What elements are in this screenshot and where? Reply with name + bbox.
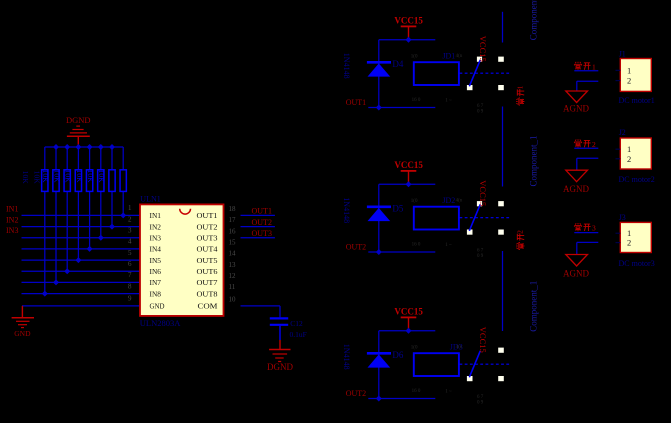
switch pad D (relay 3) (498, 376, 504, 381)
svg-text:COM: COM (198, 302, 218, 311)
power VCC15 (relay 1) (394, 16, 423, 40)
svg-text:10K: 10K (33, 171, 42, 185)
svg-text:4(n: 4(n (456, 345, 463, 350)
ground AGND (J2) (563, 170, 589, 194)
svg-text:4(n: 4(n (456, 54, 463, 59)
svg-text:1N4148: 1N4148 (342, 53, 351, 79)
svg-text:6: 6 (128, 260, 132, 268)
svg-text:0 9: 0 9 (477, 254, 484, 259)
svg-text:VCC15: VCC15 (478, 36, 488, 62)
svg-text:IN3: IN3 (6, 226, 18, 235)
svg-text:18: 18 (229, 205, 237, 213)
svg-text:AGND: AGND (563, 184, 589, 194)
svg-text:IN1: IN1 (150, 211, 162, 220)
wire: bus drop to resistor R6 (100, 147, 102, 169)
svg-text:16 0: 16 0 (412, 98, 421, 103)
wire: VCC15 rail (relay 1) (379, 39, 436, 41)
wire: net 常开1 stub (574, 70, 598, 72)
junction at IN8 row (42, 291, 48, 297)
svg-text:DGND: DGND (267, 362, 293, 372)
diode D6 1N4148 flyback (367, 353, 391, 367)
resistor R4 10K (75, 170, 81, 192)
wire: resistor R3 bottom to row IN6 (66, 192, 68, 271)
pin 1 (J1) (616, 69, 621, 71)
junction on bus at resistor R7 (109, 144, 115, 150)
wire: resistor R2 bottom to row IN7 (55, 192, 57, 282)
wire: bus drop to resistor R2 (55, 147, 57, 169)
wire: resistor R6 bottom to row IN3 (100, 192, 102, 238)
switch pad B (relay 2) (498, 201, 504, 206)
wire: pin2 to AGND (J2) (577, 157, 599, 159)
svg-text:OUT2: OUT2 (197, 222, 218, 231)
svg-text:OUT5: OUT5 (197, 256, 218, 265)
svg-text:1: 1 (592, 62, 596, 71)
svg-text:VCC15: VCC15 (478, 327, 488, 353)
svg-text:ULN2803A: ULN2803A (140, 318, 181, 328)
resistor R7 10K (109, 170, 115, 192)
junction at IN6 row (64, 268, 70, 274)
svg-text:J1: J1 (619, 50, 626, 59)
wire: VCC15 feed to switch 1 (502, 12, 504, 43)
svg-text:4: 4 (128, 238, 132, 246)
junction OUT2 (relay 3) (376, 396, 382, 402)
switch pad B (relay 3) (498, 348, 504, 353)
wire: bus drop to resistor R4 (77, 147, 79, 169)
svg-text:10: 10 (229, 296, 237, 304)
power VCC15 (relay 3) (394, 307, 423, 331)
switch pad C (relay 2) (467, 230, 473, 235)
junction at IN1 row (120, 212, 126, 218)
svg-text:16: 16 (229, 227, 237, 235)
svg-text:16 0: 16 0 (412, 243, 421, 248)
connector J3 (620, 222, 651, 252)
wire: VCC15 rail (relay 2) (379, 183, 436, 185)
wire: diode branch vertical (relay 1) (378, 40, 380, 108)
switch pad C (relay 3) (467, 376, 473, 381)
junction VCC15 (relay 3) (406, 328, 412, 334)
svg-text:IN2: IN2 (6, 215, 18, 224)
svg-text:1: 1 (627, 144, 631, 154)
svg-text:11: 11 (229, 283, 236, 291)
wire: resistor R7 bottom to row IN2 (111, 192, 113, 227)
svg-text:1(0: 1(0 (411, 345, 418, 350)
svg-text:10K: 10K (97, 170, 106, 184)
junction on bus at resistor R2 (53, 144, 59, 150)
svg-text:DC motor2: DC motor2 (619, 175, 655, 184)
junction VCC15 (relay 2) (406, 181, 412, 187)
ground DGND (under C12) (267, 340, 293, 372)
junction at IN4 row (87, 246, 93, 252)
net label 常开1 (rotated) (516, 89, 524, 105)
svg-text:7: 7 (128, 271, 132, 279)
capacitor C12 (270, 318, 288, 340)
wire: net 常开3 stub (574, 232, 598, 234)
svg-text:DGND: DGND (66, 115, 91, 125)
switch pad B (relay 1) (498, 57, 504, 62)
svg-text:D4: D4 (392, 59, 403, 69)
wire: switch 1 to switch 2 (502, 107, 504, 187)
switch pad A (relay 1) (477, 57, 482, 62)
svg-text:6 7: 6 7 (477, 249, 484, 254)
svg-text:16 0: 16 0 (412, 389, 421, 394)
pin 2 (J1) (616, 80, 621, 82)
svg-text:JD2: JD2 (442, 196, 455, 205)
svg-text:C12: C12 (290, 319, 303, 328)
wire: VCC15 rail (relay 3) (379, 330, 436, 332)
wire: diode branch vertical (relay 3) (378, 331, 380, 399)
relay coil JD2 (414, 207, 459, 230)
svg-text:1 ~: 1 ~ (445, 390, 452, 395)
svg-text:1 ~: 1 ~ (445, 99, 452, 104)
ground AGND (J3) (563, 255, 589, 279)
wire: resistor R4 bottom to row IN5 (77, 192, 79, 260)
svg-text:DC motor1: DC motor1 (619, 96, 655, 105)
switch blade (relay 3) (469, 351, 480, 378)
svg-text:DC motor3: DC motor3 (619, 259, 655, 268)
svg-text:OUT8: OUT8 (197, 289, 218, 298)
junction on bus at resistor R5 (87, 144, 93, 150)
actuation dashed link (relay 3) (460, 363, 512, 365)
svg-text:IN3: IN3 (150, 233, 162, 242)
svg-text:10K: 10K (86, 170, 95, 184)
svg-text:AGND: AGND (563, 269, 589, 279)
svg-text:10K: 10K (52, 170, 61, 184)
svg-text:OUT2: OUT2 (346, 242, 366, 251)
svg-text:1: 1 (128, 204, 132, 212)
svg-text:2: 2 (627, 76, 631, 86)
svg-text:10K: 10K (64, 170, 73, 184)
junction on bus at resistor R4 (75, 144, 81, 150)
svg-text:OUT1: OUT1 (252, 207, 272, 216)
svg-text:2: 2 (627, 238, 631, 248)
svg-text:13: 13 (229, 261, 237, 269)
svg-text:1(0: 1(0 (411, 54, 418, 59)
junction OUT1 (relay 1) (376, 105, 382, 111)
svg-text:GND: GND (150, 302, 165, 311)
svg-text:1(0: 1(0 (411, 199, 418, 204)
svg-text:IN7: IN7 (150, 278, 162, 287)
wire: net IN6 row to chip pin 6 (22, 270, 141, 272)
svg-text:IN8: IN8 (150, 289, 162, 298)
switch blade (relay 2) (469, 204, 480, 231)
svg-text:OUT6: OUT6 (197, 267, 218, 276)
svg-text:15: 15 (229, 239, 237, 247)
junction VCC15 (relay 1) (406, 37, 412, 43)
junction at IN3 row (98, 235, 104, 241)
chip notch (180, 209, 191, 214)
svg-text:OUT3: OUT3 (252, 229, 272, 238)
svg-text:4(n: 4(n (456, 198, 463, 203)
svg-text:1: 1 (515, 85, 524, 89)
wire: net IN5 row to chip pin 5 (22, 259, 141, 261)
svg-text:OUT2: OUT2 (252, 218, 272, 227)
svg-text:9: 9 (128, 295, 132, 303)
net label 常开3 (574, 223, 590, 231)
junction at IN7 row (53, 279, 59, 285)
resistor R6 10K (98, 170, 104, 192)
svg-text:AGND: AGND (563, 104, 589, 114)
svg-text:VCC15: VCC15 (394, 160, 423, 170)
pin 1 (J3) (616, 232, 621, 234)
svg-text:VCC15: VCC15 (478, 180, 488, 206)
resistor R2 10K (53, 170, 59, 192)
wire: net OUT3 from chip (241, 237, 275, 239)
wire: net 常开2 stub (574, 147, 598, 149)
svg-text:2: 2 (515, 230, 524, 234)
svg-text:Component_1: Component_1 (528, 0, 538, 40)
wire: bus drop to resistor R7 (111, 147, 113, 169)
svg-text:OUT3: OUT3 (197, 233, 218, 242)
ground GND (chip pin 9) (12, 306, 34, 338)
svg-text:J3: J3 (619, 213, 626, 222)
wire: net IN7 row to chip pin 7 (22, 281, 141, 283)
svg-text:1N4148: 1N4148 (342, 344, 351, 370)
ground AGND (J1) (563, 91, 589, 114)
svg-text:OUT1: OUT1 (197, 211, 218, 220)
svg-text:Component_1: Component_1 (528, 281, 538, 332)
svg-text:VCC15: VCC15 (394, 16, 423, 26)
svg-text:12: 12 (229, 272, 237, 280)
switch pad A (relay 2) (477, 201, 482, 206)
switch pad D (relay 2) (498, 230, 504, 235)
pin 1 (J2) (616, 148, 621, 150)
wire: net OUT2 (relay 3) (368, 398, 435, 400)
connector J1 (620, 59, 651, 92)
wire: pin2 to AGND (J3) (577, 241, 599, 243)
wire: bus drop to resistor R1 (44, 147, 46, 169)
svg-text:5: 5 (128, 249, 132, 257)
resistor R3 10K (64, 170, 70, 192)
wire: GND row to chip pin 9 (22, 305, 140, 307)
svg-text:IN4: IN4 (150, 245, 162, 254)
wire: resistor R1 bottom to row IN8 (44, 192, 46, 294)
svg-text:D5: D5 (392, 203, 403, 213)
op-amp/IC U1 ULN2803A body (140, 204, 224, 316)
wire: net IN3 row to chip pin 3 (22, 237, 141, 239)
junction at IN5 row (75, 257, 81, 263)
svg-text:OUT4: OUT4 (197, 245, 218, 254)
power DGND (top resistor bus) (66, 115, 91, 147)
wire: bus drop to resistor R8 (122, 147, 124, 169)
svg-text:2: 2 (627, 154, 631, 164)
svg-text:GND: GND (14, 329, 31, 338)
svg-text:OUT1: OUT1 (346, 98, 366, 107)
wire: COM to C12 (241, 305, 281, 307)
svg-text:10K: 10K (21, 171, 30, 185)
svg-text:0 9: 0 9 (477, 401, 484, 406)
switch pad D (relay 1) (498, 85, 504, 90)
resistor R8 10K (120, 170, 126, 192)
svg-text:OUT2: OUT2 (346, 389, 366, 398)
svg-text:1N4148: 1N4148 (342, 197, 351, 223)
pin 2 (J2) (616, 158, 621, 160)
svg-text:0.1uF: 0.1uF (290, 330, 307, 339)
svg-text:J2: J2 (619, 128, 626, 137)
svg-text:1 ~: 1 ~ (445, 243, 452, 248)
svg-text:14: 14 (229, 250, 237, 258)
junction at IN2 row (109, 224, 115, 230)
wire: resistor R5 bottom to row IN4 (89, 192, 91, 249)
svg-text:3: 3 (592, 224, 596, 233)
switch blade (relay 1) (469, 60, 480, 87)
svg-text:1: 1 (627, 65, 631, 75)
diode D5 1N4148 flyback (367, 207, 391, 221)
wire: pin2 to AGND (J1) (577, 80, 599, 82)
svg-text:6 7: 6 7 (477, 104, 484, 109)
actuation dashed link (relay 1) (460, 72, 512, 74)
svg-text:10K: 10K (75, 170, 84, 184)
svg-text:IN6: IN6 (150, 267, 162, 276)
junction on bus at resistor R3 (64, 144, 70, 150)
svg-text:IN1: IN1 (6, 205, 18, 214)
power VCC15 (relay 2) (394, 160, 423, 184)
wire: resistor top bus (45, 146, 123, 148)
wire: net OUT1 (relay 1) (368, 107, 435, 109)
net label 常开2 (574, 139, 590, 147)
svg-text:10K: 10K (41, 170, 50, 184)
svg-text:D6: D6 (392, 350, 403, 360)
svg-text:JD1: JD1 (442, 51, 455, 60)
net label 常开1 (574, 62, 590, 70)
wire: net IN8 row to chip pin 8 (22, 293, 141, 295)
actuation dashed link (relay 2) (460, 217, 512, 219)
svg-text:2: 2 (128, 215, 132, 223)
svg-text:IN2: IN2 (150, 222, 162, 231)
wire: diode branch vertical (relay 2) (378, 184, 380, 252)
wire: net OUT1 from chip (241, 214, 275, 216)
connector J2 (620, 138, 651, 169)
svg-text:2: 2 (592, 140, 596, 149)
svg-text:OUT7: OUT7 (197, 278, 218, 287)
svg-text:Component_1: Component_1 (528, 136, 538, 187)
wire: net IN4 row to chip pin 4 (22, 248, 141, 250)
relay coil JD3 (414, 353, 459, 376)
resistor R1 10K (42, 170, 48, 192)
wire: resistor R8 bottom to row IN1 (122, 192, 124, 215)
pin 2 (J3) (616, 242, 621, 244)
relay coil JD1 (414, 62, 459, 85)
diode D4 1N4148 flyback (367, 62, 391, 76)
wire: bus drop to resistor R5 (89, 147, 91, 169)
svg-text:ULN1: ULN1 (140, 195, 160, 204)
svg-text:VCC15: VCC15 (394, 307, 423, 317)
wire: bus drop to resistor R3 (66, 147, 68, 169)
wire: net IN2 row to chip pin 2 (22, 226, 141, 228)
wire: net OUT2 (relay 2) (368, 251, 435, 253)
wire: switch 2 to switch 3 (502, 251, 504, 331)
wire: net IN1 row to chip pin 1 (22, 214, 141, 216)
switch pad C (relay 1) (467, 85, 473, 90)
junction OUT2 (relay 2) (376, 249, 382, 255)
resistor R5 10K (86, 170, 92, 192)
svg-text:6 7: 6 7 (477, 395, 484, 400)
net label 常开2 (rotated) (516, 233, 524, 249)
svg-text:0 9: 0 9 (477, 110, 484, 115)
wire: net OUT2 from chip (241, 226, 275, 228)
svg-text:17: 17 (229, 216, 237, 224)
svg-text:IN5: IN5 (150, 256, 162, 265)
svg-text:8: 8 (128, 282, 132, 290)
svg-text:3: 3 (128, 227, 132, 235)
junction on bus at resistor R6 (98, 144, 104, 150)
